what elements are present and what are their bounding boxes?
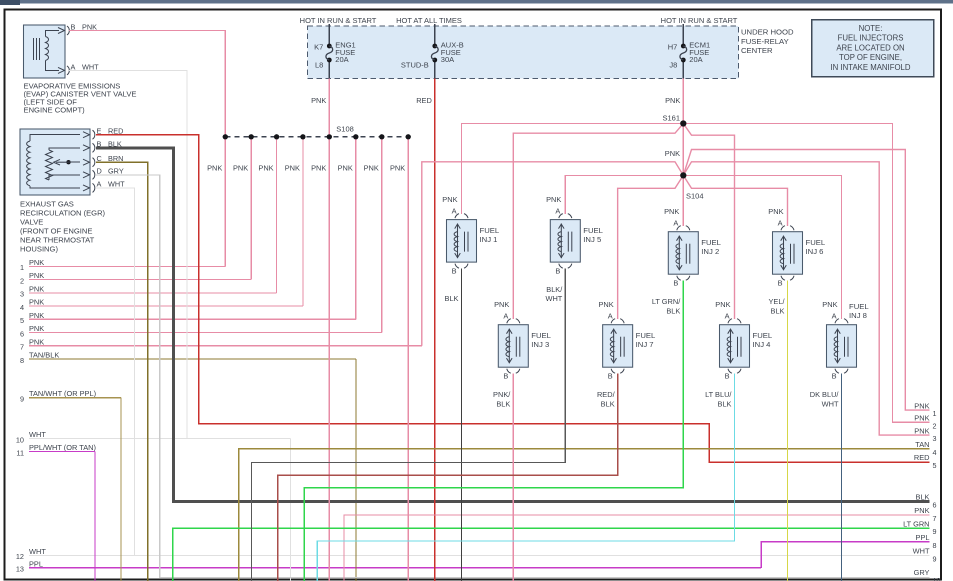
svg-text:PNK: PNK bbox=[29, 324, 44, 333]
svg-text:RED: RED bbox=[914, 453, 930, 462]
injector FUEL INJ 2 bbox=[652, 207, 722, 315]
svg-text:12: 12 bbox=[16, 552, 24, 561]
svg-text:PNK: PNK bbox=[914, 401, 929, 410]
injector FUEL INJ 6 bbox=[768, 207, 826, 315]
svg-text:4: 4 bbox=[933, 448, 937, 457]
svg-text:HOT IN RUN & START: HOT IN RUN & START bbox=[300, 16, 377, 25]
svg-text:INJ 3: INJ 3 bbox=[531, 340, 549, 349]
svg-text:FUEL: FUEL bbox=[636, 331, 656, 340]
svg-text:RED: RED bbox=[416, 96, 432, 105]
svg-text:PPL/WHT (OR TAN): PPL/WHT (OR TAN) bbox=[29, 443, 96, 452]
svg-text:B: B bbox=[673, 279, 678, 288]
wire S104 left to row 7 riser bbox=[422, 162, 684, 346]
wire S108 drop PNK x=355.8 bbox=[355, 137, 357, 319]
svg-text:RED/: RED/ bbox=[597, 390, 616, 399]
wire injector8 B DK BLU/WHT bbox=[841, 374, 843, 581]
svg-text:DK BLU/: DK BLU/ bbox=[810, 390, 840, 399]
wire row11 PPL/WHT drop bbox=[94, 452, 96, 581]
EGR valve bbox=[20, 129, 90, 195]
svg-text:HOT AT ALL TIMES: HOT AT ALL TIMES bbox=[396, 16, 462, 25]
svg-text:B: B bbox=[832, 372, 837, 381]
svg-text:6: 6 bbox=[933, 501, 937, 510]
svg-text:S108: S108 bbox=[336, 125, 354, 134]
wire ECM1 fuse PNK to S161 bbox=[682, 79, 684, 124]
wire EGR C BRN down off-page bbox=[96, 162, 148, 581]
svg-text:13: 13 bbox=[16, 565, 24, 574]
svg-text:PNK: PNK bbox=[665, 96, 680, 105]
svg-text:PPL: PPL bbox=[29, 559, 43, 568]
wire injector1 B BLK bbox=[460, 269, 462, 581]
svg-text:PNK: PNK bbox=[914, 414, 929, 423]
svg-text:INJ 5: INJ 5 bbox=[583, 235, 601, 244]
injector FUEL INJ 3 bbox=[493, 300, 552, 408]
svg-text:A: A bbox=[673, 219, 678, 228]
wire S161 to injector 3 bbox=[513, 124, 683, 320]
svg-text:S104: S104 bbox=[686, 192, 704, 201]
svg-text:TAN: TAN bbox=[915, 440, 929, 449]
svg-text:WHT: WHT bbox=[29, 547, 46, 556]
wire EVAP B PNK to S108 bbox=[69, 31, 225, 137]
svg-text:B: B bbox=[452, 267, 457, 276]
wire injector4 B LT BLU/BLK bbox=[317, 374, 734, 581]
svg-text:PNK: PNK bbox=[338, 164, 353, 173]
svg-text:INJ 8: INJ 8 bbox=[849, 311, 867, 320]
svg-text:20A: 20A bbox=[689, 55, 702, 64]
svg-text:FUEL INJECTORS: FUEL INJECTORS bbox=[838, 34, 904, 43]
wire S104 to PNK 1 bbox=[683, 150, 929, 411]
wire AUX-B fuse RED to bottom bbox=[434, 79, 436, 581]
svg-text:EXHAUST GAS: EXHAUST GAS bbox=[20, 200, 74, 209]
svg-text:PNK: PNK bbox=[29, 258, 44, 267]
svg-text:NOTE:: NOTE: bbox=[859, 24, 883, 33]
wire row9 TAN/WHT drop bbox=[120, 398, 122, 581]
injector FUEL INJ 4 bbox=[705, 300, 773, 408]
svg-text:5: 5 bbox=[20, 316, 24, 325]
svg-text:PNK: PNK bbox=[29, 311, 44, 320]
svg-text:BLK/: BLK/ bbox=[546, 285, 563, 294]
svg-text:LT GRN/: LT GRN/ bbox=[652, 297, 681, 306]
svg-text:5: 5 bbox=[933, 461, 937, 470]
svg-text:CENTER: CENTER bbox=[741, 46, 773, 55]
svg-text:S161: S161 bbox=[662, 114, 680, 123]
wire S104 to injector 8 bbox=[683, 175, 841, 319]
svg-text:LT BLU/: LT BLU/ bbox=[705, 390, 732, 399]
injector FUEL INJ 1 bbox=[442, 195, 500, 303]
wire injector3 B PNK/BLK bbox=[512, 374, 514, 581]
svg-text:A: A bbox=[832, 312, 837, 321]
svg-text:PNK: PNK bbox=[914, 426, 929, 435]
node S108 junction dot x=329.3 bbox=[327, 134, 332, 139]
wire S108 drop PNK x=408.2 bbox=[407, 137, 409, 346]
wire EGR A WHT to row 12 bbox=[96, 188, 135, 555]
svg-text:2: 2 bbox=[933, 421, 937, 430]
wire S104 to injector 6 bbox=[683, 175, 787, 226]
svg-text:A: A bbox=[778, 219, 783, 228]
svg-text:B: B bbox=[608, 372, 613, 381]
svg-text:BLK: BLK bbox=[916, 493, 930, 502]
svg-text:YEL/: YEL/ bbox=[768, 297, 785, 306]
svg-text:PNK: PNK bbox=[364, 164, 379, 173]
wire injector7 B RED/BLK bbox=[278, 374, 618, 581]
EGR pin E RED bbox=[83, 132, 90, 138]
svg-text:TOP OF ENGINE,: TOP OF ENGINE, bbox=[839, 53, 902, 62]
wire S161 to injector 4 bbox=[683, 124, 734, 320]
svg-text:ENGINE COMPT): ENGINE COMPT) bbox=[24, 106, 86, 115]
wire S108 drop PNK x=381.8 bbox=[381, 137, 383, 333]
svg-text:B: B bbox=[778, 279, 783, 288]
svg-text:PNK: PNK bbox=[715, 300, 730, 309]
svg-text:INJ 2: INJ 2 bbox=[701, 247, 719, 256]
wire S104 right to PNK 3 bbox=[683, 162, 929, 435]
svg-text:11: 11 bbox=[16, 448, 24, 457]
svg-text:WHT: WHT bbox=[29, 430, 46, 439]
svg-text:PNK: PNK bbox=[822, 300, 837, 309]
injector FUEL INJ 5 bbox=[545, 195, 603, 303]
svg-text:FUEL: FUEL bbox=[753, 331, 773, 340]
svg-text:PNK: PNK bbox=[29, 337, 44, 346]
svg-text:PNK: PNK bbox=[665, 149, 680, 158]
note box bbox=[812, 20, 934, 77]
wire S108 drop PNK x=225.3 bbox=[224, 137, 226, 267]
svg-text:10: 10 bbox=[16, 435, 24, 444]
svg-text:TAN/WHT (OR PPL): TAN/WHT (OR PPL) bbox=[29, 389, 96, 398]
svg-text:FUEL: FUEL bbox=[480, 226, 500, 235]
svg-text:VALVE: VALVE bbox=[20, 218, 43, 227]
node S108 junction dot x=225.3 bbox=[223, 134, 228, 139]
svg-text:LT GRN: LT GRN bbox=[903, 519, 929, 528]
svg-text:1: 1 bbox=[20, 263, 24, 272]
svg-text:2: 2 bbox=[20, 276, 24, 285]
node S108 junction dot x=408.2 bbox=[406, 134, 411, 139]
node S104 dot overlay bbox=[680, 172, 686, 178]
svg-text:BLK: BLK bbox=[666, 306, 680, 315]
wire row8 TAN/BLK drop bbox=[355, 359, 357, 581]
EVAP canister vent valve bbox=[24, 25, 66, 78]
svg-text:FUEL: FUEL bbox=[806, 238, 826, 247]
svg-text:PNK: PNK bbox=[311, 164, 326, 173]
svg-text:HOT IN RUN & START: HOT IN RUN & START bbox=[661, 16, 738, 25]
wire S104 to injector 2 bbox=[682, 175, 684, 226]
svg-text:PNK: PNK bbox=[285, 164, 300, 173]
svg-text:A: A bbox=[503, 312, 508, 321]
svg-text:PPL: PPL bbox=[916, 533, 930, 542]
EGR pin D GRY bbox=[83, 172, 90, 178]
under hood fuse-relay center box bbox=[308, 26, 739, 79]
wire S161 to S104 PNK bbox=[682, 124, 684, 176]
wire S161 left to injector 1 bbox=[462, 124, 684, 215]
wire injector2 B LT GRN/BLK bbox=[304, 281, 683, 581]
wire S104 to injector 5 bbox=[565, 175, 683, 214]
svg-text:B: B bbox=[555, 267, 560, 276]
svg-text:PNK: PNK bbox=[311, 96, 326, 105]
svg-text:PNK: PNK bbox=[598, 300, 613, 309]
wire S108 drop 8 continues to bottom bbox=[407, 346, 409, 581]
svg-text:BLK: BLK bbox=[771, 306, 785, 315]
svg-text:INJ 6: INJ 6 bbox=[806, 247, 824, 256]
wire EGR B BLK thick to BLK 6 bbox=[96, 148, 930, 502]
svg-text:GRY: GRY bbox=[914, 568, 930, 577]
wire EGR D GRY to GRY 10 bbox=[96, 175, 930, 578]
svg-text:1: 1 bbox=[933, 409, 937, 418]
svg-text:A: A bbox=[608, 312, 613, 321]
svg-text:WHT: WHT bbox=[545, 294, 562, 303]
node S108 junction dot x=276.6 bbox=[274, 134, 279, 139]
EGR pin B BLK bbox=[83, 145, 90, 151]
svg-text:A: A bbox=[725, 312, 730, 321]
svg-text:FUEL: FUEL bbox=[701, 238, 721, 247]
wire row13 PPL riser and PPL 8 right row bbox=[761, 542, 929, 568]
svg-text:STUD-B: STUD-B bbox=[401, 61, 429, 70]
svg-text:ARE LOCATED ON: ARE LOCATED ON bbox=[836, 43, 904, 52]
node S104 bbox=[680, 172, 686, 178]
EGR pin C BRN bbox=[83, 159, 90, 165]
svg-text:PNK: PNK bbox=[546, 195, 561, 204]
wire EGR E RED staircase to RED 5 bbox=[96, 135, 930, 462]
wire S161 right to PNK 2 bbox=[683, 124, 929, 423]
svg-text:3: 3 bbox=[20, 290, 24, 299]
svg-text:FUEL: FUEL bbox=[849, 302, 869, 311]
svg-text:TAN/BLK: TAN/BLK bbox=[29, 351, 59, 360]
svg-text:PNK: PNK bbox=[29, 284, 44, 293]
svg-text:3: 3 bbox=[933, 434, 937, 443]
svg-text:4: 4 bbox=[20, 303, 24, 312]
wire injector5 B BLK/WHT bbox=[251, 269, 565, 581]
svg-text:PNK: PNK bbox=[914, 506, 929, 515]
injector FUEL INJ 7 bbox=[597, 300, 656, 408]
svg-text:8: 8 bbox=[20, 356, 24, 365]
svg-text:9: 9 bbox=[933, 527, 937, 536]
svg-text:10: 10 bbox=[933, 576, 941, 581]
svg-text:FUSE-RELAY: FUSE-RELAY bbox=[741, 37, 789, 46]
svg-text:30A: 30A bbox=[441, 55, 454, 64]
svg-text:L8: L8 bbox=[315, 61, 323, 70]
node S108 junction dot x=302.9 bbox=[300, 134, 305, 139]
svg-text:B: B bbox=[503, 372, 508, 381]
wire S108 drop PNK x=251.2 bbox=[250, 137, 252, 280]
svg-text:NEAR THERMOSTAT: NEAR THERMOSTAT bbox=[20, 236, 95, 245]
svg-text:7: 7 bbox=[20, 343, 24, 352]
svg-text:PNK: PNK bbox=[29, 271, 44, 280]
svg-text:6: 6 bbox=[20, 329, 24, 338]
svg-text:PNK: PNK bbox=[207, 164, 222, 173]
svg-text:PNK: PNK bbox=[390, 164, 405, 173]
svg-text:A: A bbox=[452, 207, 457, 216]
window top bar bbox=[0, 0, 953, 4]
svg-text:B: B bbox=[725, 372, 730, 381]
svg-text:FUEL: FUEL bbox=[583, 226, 603, 235]
wire S108 drop PNK x=302.9 bbox=[302, 137, 304, 306]
svg-text:PNK: PNK bbox=[29, 298, 44, 307]
svg-text:FUEL: FUEL bbox=[531, 331, 551, 340]
svg-text:IN INTAKE MANIFOLD: IN INTAKE MANIFOLD bbox=[831, 63, 911, 72]
svg-text:PNK: PNK bbox=[768, 207, 783, 216]
node S161 bbox=[680, 121, 686, 127]
svg-text:WHT: WHT bbox=[913, 547, 930, 556]
svg-text:RECIRCULATION (EGR): RECIRCULATION (EGR) bbox=[20, 209, 106, 218]
svg-text:BLK: BLK bbox=[601, 399, 615, 408]
wire injector6 B YEL/BLK bbox=[787, 281, 789, 581]
svg-text:(FRONT OF ENGINE: (FRONT OF ENGINE bbox=[20, 227, 92, 236]
node S108 junction dot x=355.8 bbox=[353, 134, 358, 139]
node S161 dot overlay bbox=[680, 120, 686, 126]
svg-text:PNK: PNK bbox=[258, 164, 273, 173]
svg-text:BLK: BLK bbox=[445, 294, 459, 303]
svg-text:7: 7 bbox=[933, 514, 937, 523]
svg-text:A: A bbox=[555, 207, 560, 216]
svg-text:HOUSING): HOUSING) bbox=[20, 245, 58, 254]
svg-text:H7: H7 bbox=[668, 43, 678, 52]
svg-text:PNK/: PNK/ bbox=[493, 390, 511, 399]
svg-text:K7: K7 bbox=[314, 43, 323, 52]
svg-text:PNK: PNK bbox=[442, 195, 457, 204]
wire TAN 4 right row bbox=[239, 449, 930, 581]
injector FUEL INJ 8 bbox=[810, 300, 870, 408]
svg-text:J8: J8 bbox=[669, 61, 677, 70]
svg-text:BLK: BLK bbox=[718, 399, 732, 408]
svg-text:BLK: BLK bbox=[496, 399, 510, 408]
EGR pin A WHT bbox=[83, 185, 90, 191]
wire S108 drop PNK x=276.6 bbox=[276, 137, 278, 293]
svg-text:8: 8 bbox=[933, 541, 937, 550]
svg-text:UNDER HOOD: UNDER HOOD bbox=[741, 28, 794, 37]
splice S108 dashed bus bbox=[225, 136, 408, 138]
wire EVAP A WHT down to row 10 bbox=[69, 70, 187, 438]
svg-text:9: 9 bbox=[20, 395, 24, 404]
svg-text:WHT: WHT bbox=[822, 399, 839, 408]
node S108 junction dot x=251.2 bbox=[249, 134, 254, 139]
svg-text:PNK: PNK bbox=[664, 207, 679, 216]
wire row10 WHT drop bbox=[290, 439, 292, 581]
svg-text:20A: 20A bbox=[335, 55, 348, 64]
wire S104 to injector 7 bbox=[618, 175, 684, 319]
svg-text:PNK: PNK bbox=[494, 300, 509, 309]
svg-text:9: 9 bbox=[933, 554, 937, 563]
svg-text:PNK: PNK bbox=[233, 164, 248, 173]
wire PNK 7 right row bbox=[344, 515, 929, 581]
svg-text:INJ 4: INJ 4 bbox=[753, 340, 772, 349]
node S108 junction dot x=381.8 bbox=[379, 134, 384, 139]
svg-text:INJ 1: INJ 1 bbox=[480, 235, 498, 244]
wire ENG1 fuse PNK through S108 to bottom bbox=[328, 79, 330, 581]
wire LT GRN 9 right row bbox=[173, 528, 930, 581]
svg-text:INJ 7: INJ 7 bbox=[636, 340, 654, 349]
